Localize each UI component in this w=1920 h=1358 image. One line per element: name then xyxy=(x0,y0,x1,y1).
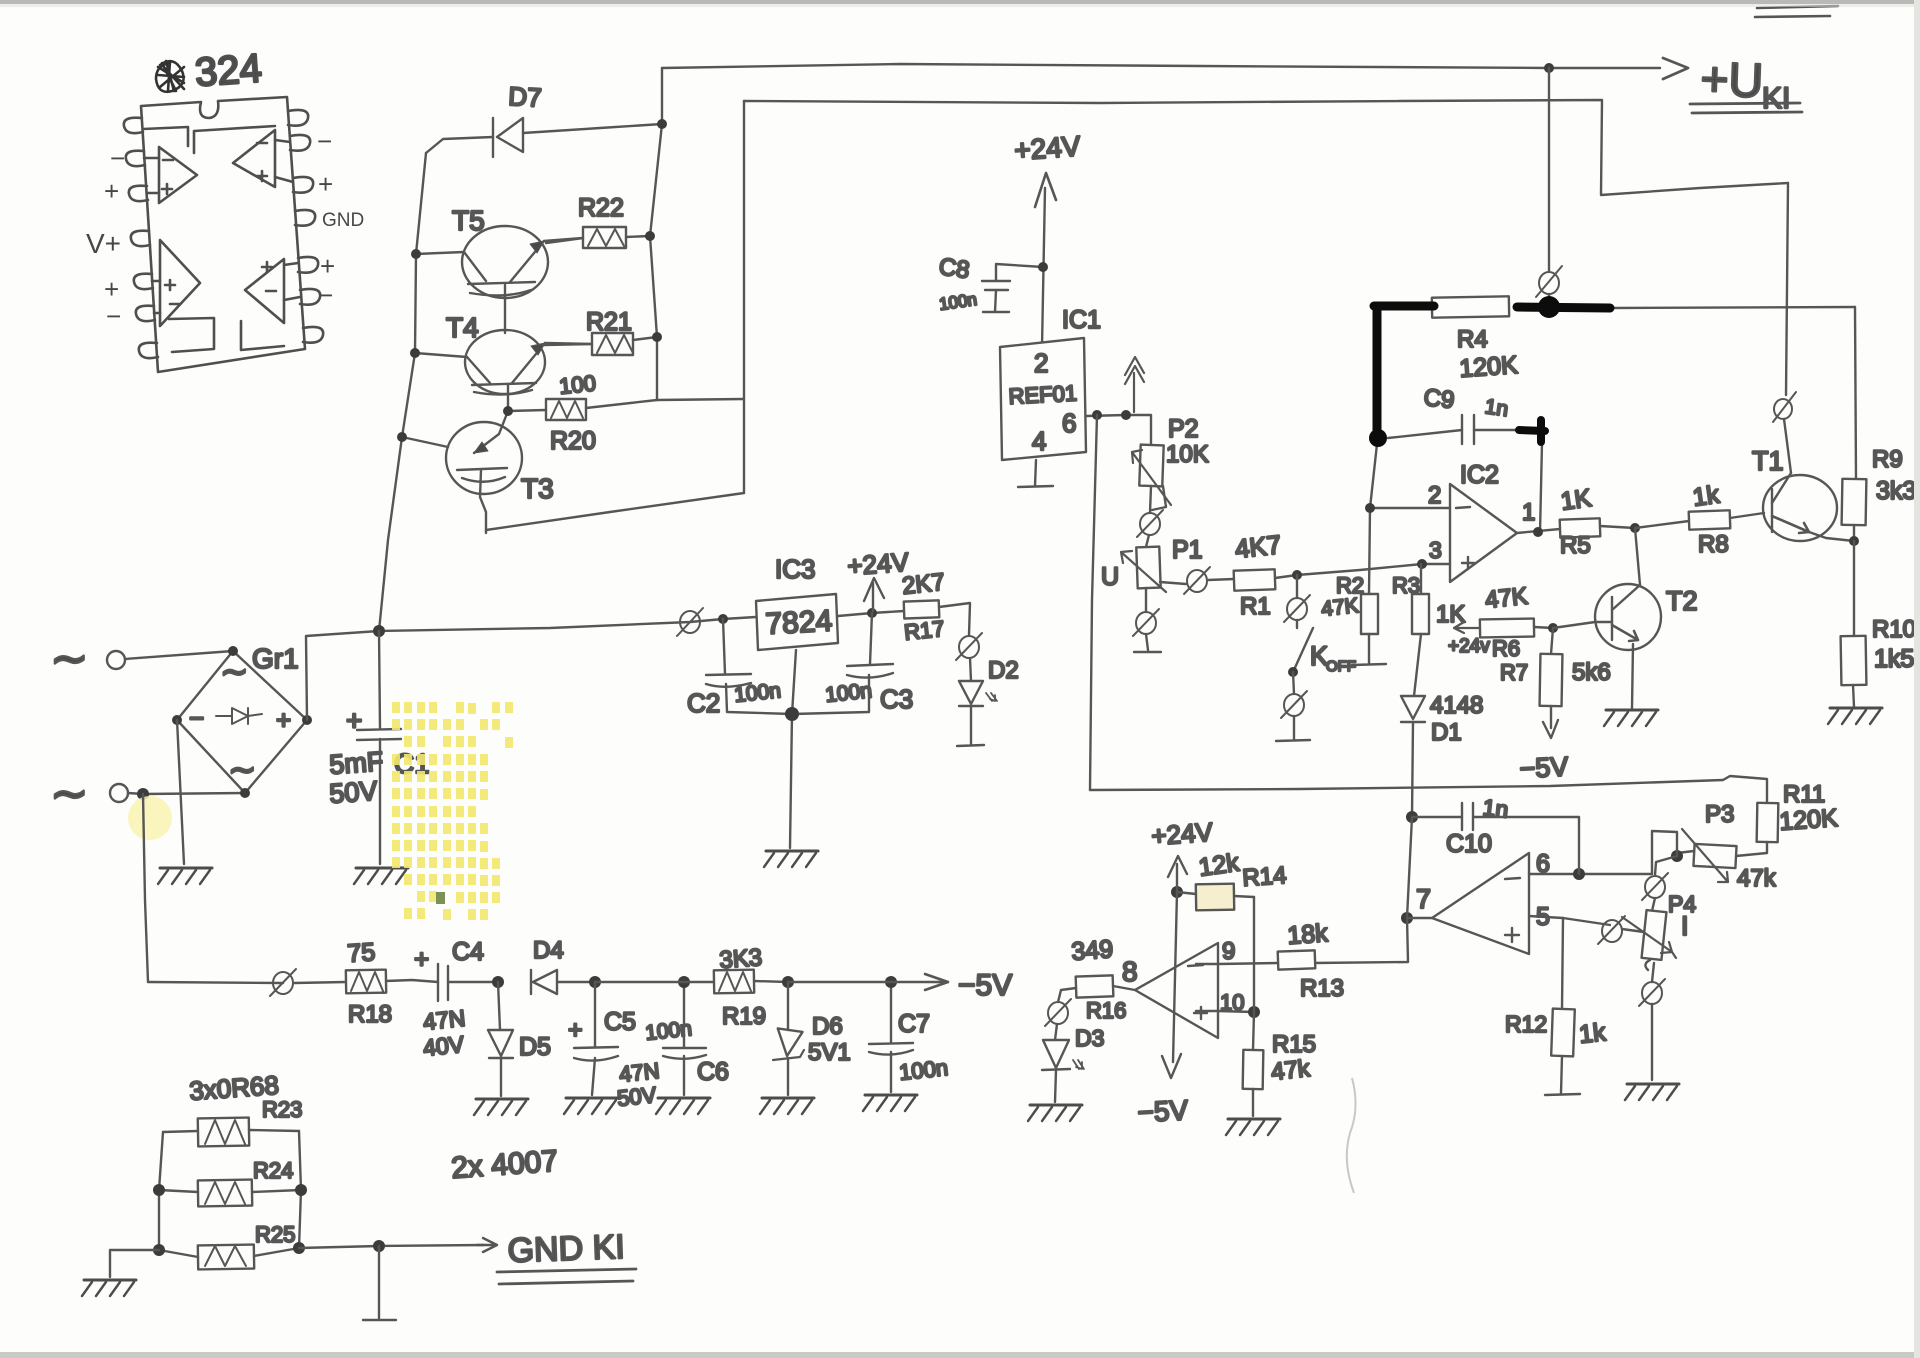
svg-text:+24v: +24v xyxy=(1448,636,1490,657)
solder point below P4 xyxy=(1642,982,1662,1004)
svg-text:−5V: −5V xyxy=(1137,1094,1189,1128)
op-amp A top-left triangle xyxy=(159,147,197,203)
svg-text:324: 324 xyxy=(194,46,264,95)
wire from top rail down to R4 node xyxy=(1548,68,1550,271)
svg-text:1n: 1n xyxy=(1483,395,1509,421)
svg-text:GND: GND xyxy=(322,210,364,231)
wire P3 node down to P4 xyxy=(1655,856,1677,875)
svg-text:47k: 47k xyxy=(1270,1055,1312,1086)
svg-text:R8: R8 xyxy=(1698,531,1729,558)
reference wire across bottom xyxy=(1090,780,1723,790)
svg-text:D5: D5 xyxy=(519,1033,551,1061)
main +rail wire to IC3 xyxy=(379,617,756,631)
resistor R23 xyxy=(163,1097,302,1146)
svg-text:75: 75 xyxy=(346,938,376,968)
node C8 / IC1 pin2 xyxy=(1038,262,1048,272)
capacitor C5 47n 50V xyxy=(568,982,661,1111)
svg-text:120K: 120K xyxy=(1458,351,1519,383)
svg-text:R4: R4 xyxy=(1457,326,1488,353)
svg-text:R17: R17 xyxy=(903,616,946,645)
solder point before R1 xyxy=(1187,570,1207,592)
resistor R13 18k xyxy=(1218,918,1408,1002)
svg-text:+: + xyxy=(320,251,335,281)
svg-text:U: U xyxy=(1101,563,1119,591)
LED D2 xyxy=(957,657,1019,746)
diode D7 xyxy=(426,81,662,157)
yellow highlighter blob xyxy=(128,796,172,840)
op-amp pins 8 9 10 xyxy=(1122,938,1244,1038)
P1 bottom terminal bar xyxy=(1134,634,1161,652)
scribble blob xyxy=(156,61,184,92)
svg-text:1K: 1K xyxy=(1559,484,1593,516)
thick marker corner at C9 right xyxy=(1519,420,1545,442)
resistor R6 47K with +24v arrow xyxy=(1448,583,1553,661)
svg-text:5V1: 5V1 xyxy=(808,1039,851,1066)
svg-text:C2: C2 xyxy=(687,688,720,718)
svg-text:+: + xyxy=(276,705,291,735)
svg-text:D4: D4 xyxy=(533,937,564,964)
svg-text:C9: C9 xyxy=(1422,384,1455,414)
svg-text:OFF: OFF xyxy=(1326,658,1356,675)
left vertical of parallel group xyxy=(159,1132,163,1250)
wire bridge minus to ground xyxy=(177,720,184,864)
svg-text:R5: R5 xyxy=(1560,532,1591,559)
svg-text:100n: 100n xyxy=(824,679,873,707)
svg-text:−: − xyxy=(110,143,125,173)
svg-text:R19: R19 xyxy=(722,1003,766,1030)
svg-text:4: 4 xyxy=(1032,426,1046,456)
wire IC1 pin6 node down left side xyxy=(1090,415,1097,790)
resistor R9 3k3 xyxy=(1842,446,1917,541)
potentiometer P3 47k xyxy=(1677,801,1777,892)
IC1 pin4 terminal bar xyxy=(1018,460,1053,487)
svg-text:R25: R25 xyxy=(255,1222,295,1247)
IC1 REF01 box xyxy=(1000,306,1101,460)
-5V arrow under R7 xyxy=(1543,720,1558,738)
svg-text:R6: R6 xyxy=(1492,636,1520,661)
svg-text:4K7: 4K7 xyxy=(1233,529,1282,564)
resistor R15 47k xyxy=(1243,1012,1316,1116)
solder point on pin5 wire xyxy=(1602,920,1622,942)
wire group to GND KI xyxy=(299,1245,484,1248)
resistor R19 3K3 xyxy=(714,944,788,1030)
svg-text:−: − xyxy=(317,126,332,156)
svg-text:R18: R18 xyxy=(348,1001,392,1028)
svg-text:8: 8 xyxy=(1122,956,1138,987)
resistor R20 100 xyxy=(508,370,657,455)
-5V rail wire xyxy=(148,982,283,983)
capacitor C7 100n xyxy=(869,982,949,1092)
transistor T2 xyxy=(1595,528,1698,708)
svg-text:1: 1 xyxy=(1522,499,1535,526)
junction dots transistor block xyxy=(397,119,667,442)
svg-text:∼: ∼ xyxy=(50,767,89,819)
transistor T3 xyxy=(402,411,554,533)
diode D5 xyxy=(488,982,551,1096)
svg-text:C7: C7 xyxy=(898,1010,930,1038)
svg-text:1k: 1k xyxy=(1691,480,1722,511)
ground under C1 xyxy=(354,868,408,884)
green marker square xyxy=(436,892,445,904)
svg-text:9: 9 xyxy=(1222,938,1235,965)
svg-text:100n: 100n xyxy=(898,1055,949,1085)
svg-text:−: − xyxy=(318,280,333,310)
corner scribble marks top right xyxy=(1755,6,1838,17)
svg-text:R10: R10 xyxy=(1872,616,1916,643)
zener diode D6 5V1 xyxy=(773,982,851,1095)
wire pin7 node xyxy=(1401,912,1413,924)
wire T1 collector drop xyxy=(1786,183,1788,395)
svg-text:3: 3 xyxy=(1429,537,1442,563)
op-amp B top-right triangle xyxy=(233,130,275,187)
svg-text:1k: 1k xyxy=(1578,1018,1608,1049)
right pin tabs xyxy=(288,110,308,126)
wire R1 to IC2 pin3 xyxy=(1275,564,1450,578)
solder point symbol on T1 collector wire xyxy=(1773,392,1796,422)
capacitor C1 5mF 50V xyxy=(328,631,429,864)
svg-text:R15: R15 xyxy=(1272,1031,1316,1058)
solder point above P4 xyxy=(1645,876,1665,898)
svg-text:47K: 47K xyxy=(1484,583,1529,614)
capacitor C4 47n xyxy=(414,938,498,1061)
wire C9 right to IC2 output xyxy=(1540,443,1542,533)
svg-text:C3: C3 xyxy=(880,684,913,714)
svg-text:Gr1: Gr1 xyxy=(252,643,299,674)
resistor R16 349 xyxy=(1058,935,1135,1023)
svg-text:50V: 50V xyxy=(616,1082,658,1111)
svg-text:R1: R1 xyxy=(1240,593,1271,620)
svg-text:D1: D1 xyxy=(1431,719,1462,746)
svg-text:+U: +U xyxy=(1700,53,1765,108)
svg-text:47K: 47K xyxy=(1320,594,1360,621)
switch K OFF chain xyxy=(1276,575,1356,741)
solder point symbol above R4 node xyxy=(1539,272,1559,294)
resistor R18 75 xyxy=(346,938,438,1028)
svg-text:6: 6 xyxy=(1536,850,1550,878)
thick marker line right of R4 with blob xyxy=(1517,307,1610,308)
svg-text:+24V: +24V xyxy=(1150,817,1214,851)
wire second rail xyxy=(744,100,1788,195)
svg-text:R24: R24 xyxy=(253,1158,293,1183)
svg-text:D7: D7 xyxy=(508,81,543,113)
svg-text:R12: R12 xyxy=(1505,1011,1547,1037)
supply line down through op-amp to -5V xyxy=(1173,892,1177,1062)
svg-text:+: + xyxy=(346,705,362,736)
svg-text:349: 349 xyxy=(1070,935,1114,966)
potentiometer P1 xyxy=(1101,536,1203,612)
wire P1 wiper to R1 xyxy=(1160,582,1186,584)
svg-text:R23: R23 xyxy=(262,1097,302,1122)
op-amp IC 324 pinout drawing xyxy=(124,46,323,372)
wire step to R11 xyxy=(1723,776,1767,803)
svg-text:I: I xyxy=(1681,911,1689,941)
svg-text:+24V: +24V xyxy=(1013,130,1081,166)
svg-text:IC3: IC3 xyxy=(775,554,815,584)
svg-text:18k: 18k xyxy=(1286,919,1329,950)
svg-text:100n: 100n xyxy=(733,679,782,707)
wire pin6 xyxy=(1529,873,1530,875)
left pin tabs xyxy=(124,118,143,133)
wire bridge plus up to main rail xyxy=(306,631,379,720)
resistor R1 4K7 xyxy=(1233,529,1282,620)
svg-text:5k6: 5k6 xyxy=(1572,659,1611,686)
svg-text:∼: ∼ xyxy=(228,751,257,789)
svg-text:C10: C10 xyxy=(1446,830,1492,858)
svg-text:D3: D3 xyxy=(1075,1025,1104,1051)
svg-text:10K: 10K xyxy=(1166,441,1209,468)
resistor R3 1K xyxy=(1392,564,1465,696)
wire group to ground left xyxy=(110,1250,159,1277)
resistor R4 120K xyxy=(1432,296,1519,383)
-5V rail arrow xyxy=(788,981,938,983)
svg-text:−5V: −5V xyxy=(1519,751,1569,784)
resistor R17 2K7 xyxy=(901,569,970,645)
svg-text:C6: C6 xyxy=(697,1058,729,1086)
transistor T5 xyxy=(416,205,583,333)
IC body outline xyxy=(141,97,305,372)
ground under bridge xyxy=(158,868,212,884)
svg-text:P2: P2 xyxy=(1168,415,1199,443)
svg-text:−: − xyxy=(106,301,121,331)
resistor R7 5k6 xyxy=(1500,628,1611,728)
svg-text:C5: C5 xyxy=(604,1008,636,1036)
capacitor C10 1n xyxy=(1406,794,1579,874)
svg-text:D6: D6 xyxy=(812,1013,843,1040)
svg-text:100: 100 xyxy=(558,370,597,399)
wire R20 row to bus B xyxy=(657,399,744,400)
svg-text:T3: T3 xyxy=(521,473,554,504)
svg-text:R13: R13 xyxy=(1300,975,1344,1002)
pin9 wire through to R13 handled above; pin10 wire to node xyxy=(1218,1011,1254,1012)
underline UK1 xyxy=(1690,103,1802,113)
svg-text:T4: T4 xyxy=(446,312,479,343)
svg-text:2: 2 xyxy=(1428,482,1441,509)
resistor R2 47K xyxy=(1320,508,1386,665)
svg-text:T2: T2 xyxy=(1666,586,1698,616)
IC3 ground pin xyxy=(790,650,796,848)
svg-text:P3: P3 xyxy=(1705,801,1734,828)
solder point on -5V rail xyxy=(273,972,293,994)
wire drop to R9 xyxy=(1855,307,1856,479)
resistor R8 1k xyxy=(1635,480,1764,558)
svg-text:R7: R7 xyxy=(1500,660,1528,685)
svg-text:KI: KI xyxy=(1762,82,1790,115)
op-amp C bottom-left triangle xyxy=(160,240,200,326)
svg-text:47k: 47k xyxy=(1737,865,1777,892)
potentiometer P2 10K xyxy=(1132,415,1209,513)
svg-text:12k: 12k xyxy=(1197,849,1241,882)
svg-text:IC1: IC1 xyxy=(1062,306,1101,334)
wire C9 left down to pin2 node xyxy=(1370,444,1377,508)
solder point under P1 xyxy=(1136,612,1156,634)
wire diagonal bus B to T3 emitter xyxy=(486,493,744,530)
stub terminal below wire xyxy=(363,1246,396,1320)
svg-text:50V: 50V xyxy=(328,776,378,809)
svg-text:REF01: REF01 xyxy=(1008,380,1078,409)
svg-text:T1: T1 xyxy=(1752,446,1784,476)
diode D1 4148 xyxy=(1401,692,1483,817)
svg-text:R22: R22 xyxy=(578,194,624,222)
resistor R11 120K xyxy=(1736,781,1839,856)
svg-text:GND KI: GND KI xyxy=(507,1228,625,1270)
resistor R5 1K xyxy=(1559,484,1635,559)
vertical bus A (right of transistors) xyxy=(650,68,662,400)
resistor R24 xyxy=(153,1158,307,1206)
capacitor C2 100n xyxy=(687,619,792,718)
solder point above D2 xyxy=(959,636,979,658)
diode D4 xyxy=(531,937,595,994)
wire left slant bus from D7 down to main rail xyxy=(379,153,426,631)
capacitor C9 1n xyxy=(1388,384,1518,444)
resistor R12 1k xyxy=(1505,918,1607,1095)
capacitor C8 100n xyxy=(937,253,1043,314)
svg-text:7824: 7824 xyxy=(765,605,833,641)
svg-text:∼: ∼ xyxy=(220,653,249,691)
svg-text:−: − xyxy=(189,703,204,733)
op-amp D bottom-right triangle xyxy=(245,259,284,323)
+24V arrow at IC3 xyxy=(846,547,910,611)
svg-text:1n: 1n xyxy=(1481,794,1509,823)
svg-text:4148: 4148 xyxy=(1430,692,1483,719)
+24V supply arrow above IC1 xyxy=(1013,130,1081,347)
resistor R25 xyxy=(153,1222,305,1269)
svg-text:7: 7 xyxy=(1416,884,1431,914)
wire IC3 out to R17 xyxy=(838,611,904,616)
op-amp IC2 xyxy=(1428,461,1535,582)
wire R4 node to right drop xyxy=(1612,307,1855,308)
regulator IC3 7824 xyxy=(756,554,838,650)
svg-text:−5V: −5V xyxy=(958,969,1012,1002)
pin labels of 324 xyxy=(86,126,364,331)
yellow highlighter grid xyxy=(392,702,513,920)
svg-text:6: 6 xyxy=(1062,408,1076,438)
ground under R10 xyxy=(1828,708,1882,724)
wire pin5 to P4 xyxy=(1529,916,1610,925)
svg-text:R16: R16 xyxy=(1086,998,1126,1023)
svg-text:120K: 120K xyxy=(1778,804,1839,836)
transistor T4 xyxy=(415,312,592,411)
solder point between P2 and P1 xyxy=(1140,513,1160,535)
svg-text:100n: 100n xyxy=(644,1017,693,1045)
resistor R22 xyxy=(546,194,650,248)
thick marker line horizontal left of R4 xyxy=(1374,302,1434,311)
solder point at R16 left xyxy=(1048,1002,1068,1024)
capacitor C6 100n xyxy=(644,982,729,1095)
reference up-arrow at pin6 xyxy=(1125,357,1144,412)
svg-text:T5: T5 xyxy=(452,205,485,236)
svg-text:IC2: IC2 xyxy=(1460,461,1499,489)
svg-text:R9: R9 xyxy=(1872,446,1903,473)
svg-text:R14: R14 xyxy=(1242,862,1288,892)
wire IC2 output to R5 xyxy=(1517,529,1560,533)
wire P3 node to op-amp pin6 xyxy=(1530,831,1677,874)
svg-text:P1: P1 xyxy=(1172,536,1203,564)
svg-text:R11: R11 xyxy=(1783,781,1825,808)
svg-text:R20: R20 xyxy=(550,427,596,455)
svg-text:+: + xyxy=(568,1016,583,1044)
svg-text:40V: 40V xyxy=(422,1031,466,1061)
svg-text:V+: V+ xyxy=(86,228,121,259)
right vertical of parallel group xyxy=(299,1131,301,1248)
svg-text:2: 2 xyxy=(1034,348,1048,378)
transistor T1 xyxy=(1752,446,1854,541)
svg-text:∼: ∼ xyxy=(50,632,89,684)
+24V arrow at R14 xyxy=(1150,817,1214,892)
thick marker vertical xyxy=(1373,306,1382,437)
svg-text:+: + xyxy=(104,274,119,304)
svg-text:+: + xyxy=(104,176,119,206)
wire AC2 down to -5V rail xyxy=(143,794,148,982)
resistor R10 1k5 xyxy=(1841,541,1916,707)
vertical R14 right to pin10 node xyxy=(1253,897,1255,1012)
svg-text:C4: C4 xyxy=(452,938,484,966)
wire pin2 node into IC2 xyxy=(1370,507,1450,509)
svg-text:2K7: 2K7 xyxy=(901,569,946,600)
potentiometer P4 I xyxy=(1622,891,1696,982)
svg-text:D2: D2 xyxy=(988,657,1019,684)
wire top rail to +UK1 xyxy=(662,64,1660,68)
resistor R21 xyxy=(543,308,657,355)
solder point on rail before IC3 xyxy=(680,611,700,633)
ground under T2 xyxy=(1604,710,1658,726)
bridge rectifier Gr1 xyxy=(172,643,312,798)
svg-text:C8: C8 xyxy=(937,253,971,284)
LED D3 xyxy=(1042,1024,1104,1102)
paper crease mark xyxy=(1347,1078,1356,1193)
resistor R14 12k xyxy=(1171,849,1287,911)
arrow GND KI xyxy=(477,1238,497,1252)
svg-text:+: + xyxy=(414,944,429,974)
node junction on top rail xyxy=(1544,63,1554,73)
svg-text:+: + xyxy=(318,169,333,199)
svg-text:3k3: 3k3 xyxy=(1876,477,1916,505)
wire IC1 pin6 to P2 xyxy=(1086,415,1151,445)
vertical bus B (outer) xyxy=(743,101,745,493)
capacitor C3 100n xyxy=(792,613,913,714)
op-amp pins 5 6 7 xyxy=(1416,850,1550,954)
svg-text:1k5: 1k5 xyxy=(1874,645,1914,673)
arrow head +UK1 xyxy=(1663,58,1688,79)
